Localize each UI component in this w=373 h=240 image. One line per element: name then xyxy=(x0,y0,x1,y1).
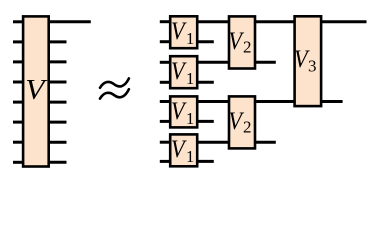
svg-text:V: V xyxy=(171,136,187,163)
label V1c xyxy=(171,98,195,128)
isometry V1 box b xyxy=(170,56,197,88)
wire stub row2 V1a out xyxy=(196,40,214,43)
wire V1a input stub row2 xyxy=(160,40,171,43)
approx upper tilde xyxy=(100,78,129,87)
svg-text:2: 2 xyxy=(243,118,252,137)
wire stub row4 V1b out xyxy=(196,81,214,84)
svg-text:1: 1 xyxy=(186,29,195,48)
label V1a xyxy=(171,18,195,48)
wire V1b input stub row3 xyxy=(160,61,171,64)
approx symbol xyxy=(100,78,129,98)
isometry V2 box b xyxy=(229,96,255,148)
wire output stub R4 xyxy=(48,81,67,84)
wire rail row7 V1d-V2b-stub xyxy=(196,141,276,144)
isometry V1 box a xyxy=(170,16,197,48)
wire input stub L3 xyxy=(13,60,24,63)
wire stub row6 V1c out xyxy=(196,120,214,123)
svg-text:1: 1 xyxy=(186,147,195,166)
wire stub row8 V1d out xyxy=(196,160,214,163)
label V2a xyxy=(228,28,251,57)
wire output stub R3 xyxy=(48,60,67,63)
wire V1c input stub row5 xyxy=(160,100,171,103)
label V3 xyxy=(294,46,317,76)
svg-text:1: 1 xyxy=(186,69,195,88)
svg-text:3: 3 xyxy=(308,57,317,76)
wire rail row3 V1b-V2a-stub xyxy=(196,61,276,64)
isometry V1 box c xyxy=(170,96,197,127)
wire V1d input stub row8 xyxy=(160,160,171,163)
wire output stub R5 xyxy=(48,101,67,104)
isometry V box xyxy=(23,16,49,166)
isometry V3 box xyxy=(295,16,322,106)
wire output stub R2 xyxy=(48,40,67,43)
wire input stub L7 xyxy=(13,141,24,144)
svg-text:V: V xyxy=(171,18,187,45)
approx lower tilde xyxy=(100,89,129,98)
wire V1d input stub row7 xyxy=(160,141,171,144)
wire output stub R8 xyxy=(48,161,67,164)
svg-text:2: 2 xyxy=(243,38,252,57)
wire output stub R7 xyxy=(48,141,67,144)
label V1b xyxy=(171,58,195,88)
wire V1c input stub row6 xyxy=(160,120,171,123)
wire input stub L6 xyxy=(13,121,24,124)
wire output long top xyxy=(48,20,91,23)
wire input stub L1 xyxy=(13,20,24,23)
wire input stub L2 xyxy=(13,40,24,43)
label V2b xyxy=(228,108,251,137)
svg-text:V: V xyxy=(171,58,187,85)
wire V1a input stub row1 xyxy=(160,20,171,23)
svg-text:V: V xyxy=(228,28,244,55)
svg-text:V: V xyxy=(228,108,244,135)
svg-text:V: V xyxy=(171,98,187,125)
svg-text:1: 1 xyxy=(186,109,195,128)
wire input stub L5 xyxy=(13,101,24,104)
isometry V1 box d xyxy=(170,134,197,166)
label V1d xyxy=(171,136,195,166)
isometry V2 box a xyxy=(229,16,255,68)
wire output stub R6 xyxy=(48,121,67,124)
wire rail row1 V1a-V2a-V3-out xyxy=(196,20,366,23)
wire input stub L8 xyxy=(13,161,24,164)
wire input stub L4 xyxy=(13,81,24,84)
wire rail row5 V1c-V2b-V3-out xyxy=(196,100,342,103)
wire V1b input stub row4 xyxy=(160,81,171,84)
